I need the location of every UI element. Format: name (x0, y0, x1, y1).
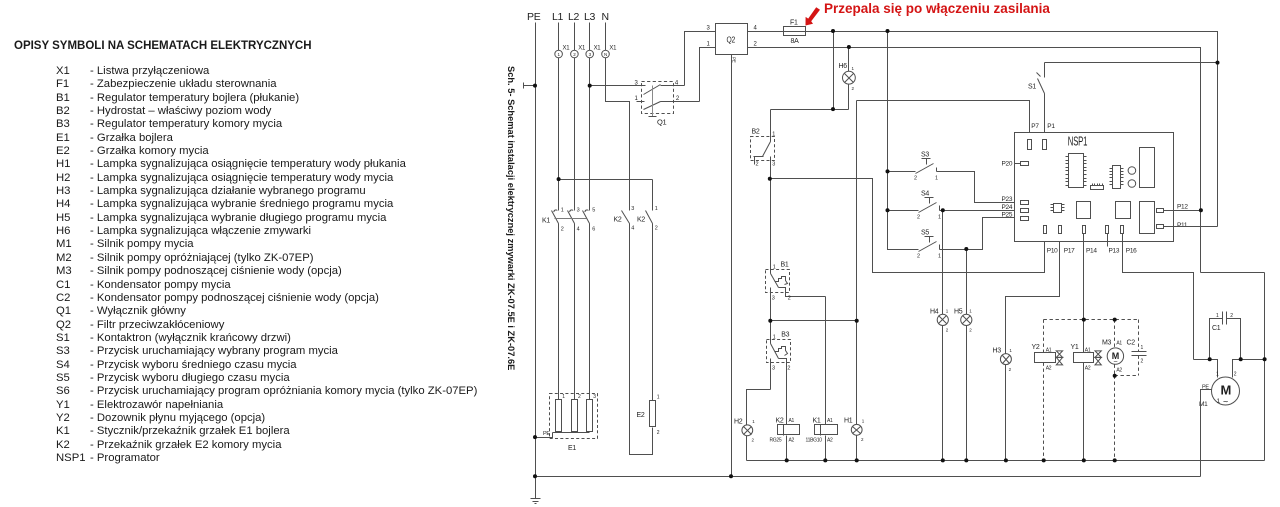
svg-text:H2: H2 (734, 419, 743, 426)
svg-text:1: 1 (938, 254, 941, 260)
svg-text:2: 2 (756, 162, 759, 168)
wire K2b to E2 top (652, 224, 654, 401)
wire S1 feed from junction to P7 (857, 101, 1030, 140)
svg-text:6: 6 (592, 227, 595, 233)
svg-text:1: 1 (562, 394, 565, 400)
svg-text:M3: M3 (1102, 340, 1112, 347)
lamp H6 (839, 48, 856, 110)
wire M1 PE to PE bus (1201, 390, 1212, 477)
filter Q2 (707, 24, 758, 63)
svg-text:B3: B3 (781, 332, 789, 339)
svg-text:2: 2 (946, 328, 949, 333)
wire PE bottom bus (536, 476, 1201, 478)
svg-text:2: 2 (657, 430, 660, 436)
PE terminal tick (524, 83, 536, 89)
wire M1 pin2 bus (1233, 360, 1265, 378)
wire S1 net down through H1 (856, 101, 858, 461)
svg-text:H6: H6 (839, 63, 848, 70)
wire H4 branch (942, 211, 944, 461)
svg-text:X1: X1 (594, 46, 602, 52)
svg-text:4: 4 (754, 26, 758, 32)
svg-text:M: M (1221, 383, 1232, 398)
svg-text:Q2: Q2 (727, 35, 736, 45)
svg-text:2: 2 (852, 86, 855, 91)
ground (531, 499, 541, 504)
svg-text:2: 2 (788, 296, 791, 302)
wire M1 pin1 bus (1194, 360, 1218, 378)
svg-text:H1: H1 (844, 418, 853, 425)
svg-text:2: 2 (861, 437, 864, 442)
svg-text:4: 4 (577, 227, 580, 233)
svg-text:K2: K2 (614, 217, 622, 224)
svg-text:A2: A2 (1116, 368, 1122, 374)
svg-text:A1: A1 (1046, 347, 1052, 353)
wire L branch to B2 (771, 31, 849, 137)
svg-text:S3: S3 (921, 152, 929, 159)
wire L1 vertical (558, 23, 560, 211)
svg-text:H5: H5 (954, 309, 963, 316)
wire Q1 pin4 to Q2 pin3 (685, 32, 716, 86)
terminal X1-3 (586, 46, 601, 58)
relay contact K2a (614, 206, 635, 232)
red annotation arrow (806, 7, 821, 25)
svg-text:1: 1 (1141, 345, 1144, 351)
svg-text:1: 1 (938, 215, 941, 221)
svg-text:2: 2 (917, 215, 920, 221)
svg-text:11BG10: 11BG10 (806, 438, 823, 444)
svg-text:C1: C1 (1212, 325, 1221, 332)
svg-text:A2: A2 (789, 438, 795, 444)
wire Q1 pin2 to Q2 pin1 (700, 48, 716, 102)
svg-text:2: 2 (754, 42, 758, 48)
svg-text:1: 1 (561, 208, 564, 214)
svg-text:2: 2 (1234, 372, 1237, 378)
svg-text:K2: K2 (776, 418, 784, 425)
contactor coil K1 (806, 297, 838, 461)
svg-text:K1: K1 (813, 418, 821, 425)
svg-text:1: 1 (635, 96, 639, 102)
svg-text:Y1: Y1 (1071, 344, 1079, 351)
svg-text:P25: P25 (1002, 212, 1013, 219)
node L3 input label (584, 11, 596, 23)
svg-text:3: 3 (772, 296, 775, 302)
pushbutton S3 (888, 152, 939, 182)
svg-text:3: 3 (631, 206, 634, 212)
svg-text:N: N (602, 11, 609, 23)
heater E2 (637, 395, 660, 437)
motor M1 (1199, 372, 1240, 409)
svg-text:A1: A1 (1116, 341, 1122, 347)
svg-text:3: 3 (577, 208, 580, 214)
svg-text:A2: A2 (827, 438, 833, 444)
svg-text:N: N (604, 52, 607, 57)
switch Q1 (635, 81, 700, 127)
svg-text:P7: P7 (1031, 123, 1039, 130)
svg-text:1: 1 (862, 419, 865, 424)
wire S4 to P24 (940, 210, 1021, 212)
svg-text:X1: X1 (578, 46, 586, 52)
svg-text:1: 1 (852, 66, 855, 71)
svg-text:2: 2 (561, 227, 564, 233)
wire B3 pin3 to H2 (747, 390, 771, 425)
svg-text:2: 2 (1141, 359, 1144, 365)
wire L2 vertical (574, 23, 576, 211)
wire H5 branch (966, 250, 968, 461)
wire P14 to Y1 (1083, 234, 1085, 353)
valve Y2 (1032, 320, 1063, 461)
svg-text:1: 1 (773, 265, 776, 271)
capacitor C2 (1115, 320, 1147, 376)
relay coil K2 (770, 418, 800, 461)
reed switch S1 (1028, 63, 1045, 140)
svg-text:1: 1 (1009, 348, 1012, 353)
svg-text:H4: H4 (930, 309, 939, 316)
svg-text:A1: A1 (827, 418, 833, 424)
wire L3 vertical (589, 23, 591, 211)
heater E1 (536, 394, 598, 453)
wire S rail from L bus (888, 31, 919, 250)
svg-text:C2: C2 (1127, 340, 1136, 347)
svg-text:PE: PE (732, 57, 737, 63)
svg-text:E2: E2 (637, 412, 645, 419)
wire S5 to P25 (940, 218, 1021, 250)
svg-text:P10: P10 (1047, 248, 1058, 255)
svg-text:S1: S1 (1028, 84, 1036, 91)
svg-text:PE: PE (543, 431, 550, 437)
svg-text:L1: L1 (552, 11, 564, 23)
thermostat B1 (766, 262, 826, 321)
svg-text:E1: E1 (568, 445, 576, 452)
lamp H1 (844, 418, 865, 443)
wire K1 pole outputs to E1 (559, 224, 590, 400)
svg-text:RG25: RG25 (770, 438, 782, 444)
wire K2a to E2 bottom (630, 224, 653, 455)
programmer NSP1 (1002, 123, 1189, 255)
svg-text:2: 2 (578, 394, 581, 400)
wire S1 upper from L corner (1045, 62, 1218, 64)
svg-text:S5: S5 (921, 230, 929, 237)
svg-text:H3: H3 (993, 348, 1002, 355)
wire N return bus (747, 460, 1265, 462)
lamp H3 (993, 348, 1013, 461)
svg-text:8A: 8A (791, 38, 800, 45)
wire B1 bus to H1 (770, 320, 857, 322)
svg-text:3: 3 (707, 26, 711, 32)
svg-text:1: 1 (772, 132, 775, 138)
svg-text:1: 1 (1216, 372, 1219, 378)
svg-text:F1: F1 (790, 20, 798, 27)
wire P16 to M1 (1123, 234, 1194, 360)
node L1 input label (552, 11, 564, 23)
svg-text:PE: PE (527, 11, 541, 23)
svg-text:P14: P14 (1086, 248, 1097, 255)
svg-text:P23: P23 (1002, 196, 1013, 203)
svg-text:X1: X1 (609, 46, 617, 52)
svg-text:A1: A1 (1085, 347, 1091, 353)
svg-text:2: 2 (676, 96, 680, 102)
svg-text:Y2: Y2 (1032, 344, 1040, 351)
svg-text:1: 1 (657, 395, 660, 401)
capacitor C1 (1210, 312, 1241, 360)
wire L3 to Q1 pin3 (590, 85, 646, 87)
contactor K1 contacts (542, 208, 595, 233)
svg-text:2: 2 (1009, 367, 1012, 372)
wire PE vertical (535, 23, 537, 499)
wire P13 stub (1107, 234, 1109, 247)
wire N vertical and bend to K2 (606, 23, 630, 211)
svg-text:P11: P11 (1177, 222, 1188, 229)
terminal X1-N (602, 46, 617, 58)
wire N branch to right column (1201, 272, 1265, 274)
svg-text:NSP1: NSP1 (1068, 135, 1088, 149)
svg-text:1: 1 (946, 309, 949, 314)
node PE input label (527, 11, 541, 23)
svg-text:2: 2 (787, 366, 790, 372)
svg-text:2: 2 (969, 328, 972, 333)
node N input label (602, 11, 609, 23)
svg-text:1: 1 (655, 206, 658, 212)
svg-text:Q1: Q1 (657, 118, 667, 127)
lamp H5 (954, 309, 972, 333)
svg-text:P24: P24 (1002, 204, 1013, 211)
motor M3 (1102, 320, 1124, 461)
wire S3 to P23 (937, 172, 1021, 203)
thermostat B3 (767, 321, 791, 425)
wire P11 to L net (1164, 226, 1218, 228)
svg-text:P16: P16 (1126, 248, 1137, 255)
svg-text:S4: S4 (921, 191, 929, 198)
svg-text:1: 1 (969, 309, 972, 314)
svg-text:A2: A2 (1085, 366, 1091, 372)
svg-text:B2: B2 (752, 129, 760, 136)
fuse F1 (784, 20, 806, 46)
lamp H4 (930, 309, 949, 333)
wire K2 contact feed (652, 180, 654, 211)
wire B2 net to S rail and P10 (770, 179, 1045, 273)
svg-text:P17: P17 (1064, 248, 1075, 255)
svg-text:A1: A1 (789, 418, 795, 424)
pushbutton S4 (888, 191, 942, 221)
svg-text:3: 3 (772, 162, 775, 168)
svg-text:4: 4 (631, 226, 634, 232)
svg-text:P20: P20 (1002, 161, 1013, 168)
wire N bus from Q2 pin2 to right (748, 48, 1201, 273)
wire P12 to N net (1164, 210, 1201, 212)
svg-text:2: 2 (752, 438, 755, 443)
wire right column vertical (1264, 273, 1266, 461)
pushbutton S5 (917, 230, 941, 260)
svg-text:3: 3 (593, 394, 596, 400)
svg-text:1: 1 (773, 335, 776, 341)
svg-text:~: ~ (1223, 397, 1228, 407)
svg-text:P1: P1 (1047, 123, 1055, 130)
svg-text:X1: X1 (563, 46, 571, 52)
wire dashed option rail (1044, 319, 1139, 321)
svg-text:L3: L3 (584, 11, 596, 23)
wire top L bus from Q2 pin4 to right corner (748, 32, 1218, 227)
svg-text:L2: L2 (568, 11, 580, 23)
svg-text:B1: B1 (781, 262, 789, 269)
svg-text:2: 2 (917, 254, 920, 260)
svg-text:3: 3 (772, 366, 775, 372)
svg-text:1: 1 (935, 176, 938, 182)
terminal X1-1 (555, 46, 570, 58)
wire L1 bus to K2 (559, 179, 653, 181)
wire Q2 bottom pin to PE bus (731, 55, 733, 477)
svg-text:K2: K2 (637, 217, 645, 224)
svg-text:5: 5 (592, 208, 595, 214)
svg-text:1: 1 (752, 419, 755, 424)
terminal X1-2 (571, 46, 586, 58)
node L2 input label (568, 11, 580, 23)
hydrostat B2 (751, 129, 776, 179)
svg-text:A2: A2 (1046, 366, 1052, 372)
svg-text:2: 2 (914, 176, 917, 182)
wire B2 to B1 (770, 179, 772, 274)
svg-text:P12: P12 (1177, 204, 1188, 211)
valve Y1 (1071, 344, 1102, 461)
svg-text:2: 2 (655, 226, 658, 232)
relay contact K2b (637, 206, 658, 232)
svg-text:K1: K1 (542, 218, 550, 225)
lamp H2 (734, 419, 755, 461)
wire P17 to H3 (1006, 234, 1060, 354)
svg-text:P13: P13 (1109, 248, 1120, 255)
svg-text:1: 1 (707, 42, 711, 48)
